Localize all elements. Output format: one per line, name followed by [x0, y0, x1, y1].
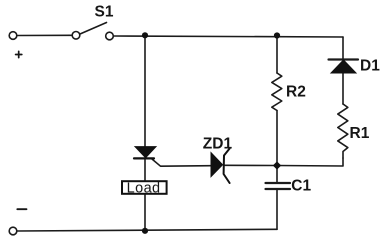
node junction top-mid [142, 32, 148, 38]
svg-text:ZD1: ZD1 [203, 135, 233, 152]
Load box [122, 181, 167, 194]
diode D1 cathode bar [329, 58, 359, 60]
wire R1 bottom corner [277, 158, 343, 166]
wire bottom rail [17, 229, 277, 231]
wire ZD1 cathode to node [224, 164, 277, 166]
terminal - (bottom-left terminal circle) [9, 227, 17, 235]
svg-text:C1: C1 [291, 178, 311, 195]
capacitor C1 bottom plate [266, 188, 291, 190]
svg-text:S1: S1 [95, 4, 114, 21]
wire middle vertical (anode branch) [144, 35, 146, 147]
switch S1 right pole circle [106, 32, 114, 40]
svg-text:R1: R1 [350, 125, 370, 142]
thyristor triangle [135, 147, 156, 158]
wire C1 to bottom rail [276, 189, 278, 229]
svg-text:D1: D1 [360, 58, 380, 75]
wire thyristor cathode to Load [144, 158, 146, 180]
svg-text:R2: R2 [286, 84, 306, 101]
wire top-left segment [17, 34, 72, 36]
node junction bottom Load [142, 228, 148, 234]
node junction mid (R2/ZD1/C1/R1) [273, 161, 281, 169]
terminal + (top-left input terminal circle) [9, 32, 17, 40]
svg-text:Load: Load [127, 180, 161, 196]
zener ZD1 triangle [211, 153, 223, 177]
diode D1 triangle [331, 60, 356, 73]
plus sign [16, 51, 22, 57]
zener ZD1 cathode bar [224, 149, 230, 184]
wire top-right corner down to D1 [342, 37, 344, 60]
capacitor C1 top plate [266, 182, 291, 184]
resistor R1 [338, 104, 348, 158]
node junction top R2 [274, 32, 280, 38]
wire R2 to node [276, 111, 278, 166]
wire R2 branch top [276, 36, 278, 74]
wire node to C1 top plate [276, 166, 278, 184]
wire top rail [114, 36, 344, 37]
wire D1 to R1 [342, 73, 344, 104]
thyristor cathode bar [134, 157, 154, 159]
switch S1 left pole circle [72, 32, 80, 40]
switch S1 blade [80, 23, 107, 35]
resistor R2 [272, 73, 282, 111]
minus sign [17, 208, 26, 210]
thyristor gate lead [152, 159, 212, 167]
wire Load to bottom rail [144, 193, 146, 230]
